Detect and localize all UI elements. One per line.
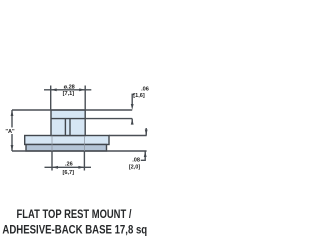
- dia extension line right: [84, 86, 86, 111]
- svg-text:[7,1]: [7,1]: [63, 91, 75, 97]
- cap bottom extension line right: [85, 118, 132, 120]
- svg-text:"A": "A": [5, 129, 15, 135]
- bottom dim extension line right: [83, 152, 85, 171]
- svg-text:.06: .06: [141, 86, 149, 92]
- dia arrow right: [79, 88, 85, 91]
- .26 arrow left: [52, 166, 58, 169]
- svg-text:.26: .26: [65, 161, 73, 167]
- dia dimension line: [44, 89, 91, 91]
- .08 arrow down: [145, 130, 148, 136]
- pedestal inner line right: [69, 119, 71, 136]
- pedestal inner line left: [64, 119, 66, 136]
- svg-text:.08: .08: [132, 158, 140, 164]
- .08 lower leader: [141, 151, 145, 160]
- svg-text:[6,7]: [6,7]: [63, 170, 75, 176]
- svg-text:[2,0]: [2,0]: [129, 164, 141, 170]
- dia value text: [5, 85, 149, 176]
- top reference line: [12, 109, 132, 111]
- A dimension line: [11, 110, 13, 151]
- dia arrow left: [51, 88, 57, 91]
- A arrow bottom: [11, 145, 14, 151]
- svg-text:FLAT TOP REST MOUNT /: FLAT TOP REST MOUNT /: [17, 209, 133, 221]
- .06 leader vertical: [132, 94, 134, 105]
- A label: [5, 128, 16, 135]
- body (cap + pedestal): [51, 110, 85, 136]
- .06 arrow down: [131, 104, 134, 110]
- .08 arrow up: [144, 151, 147, 157]
- adhesive layer: [26, 145, 107, 152]
- cap/pedestal junction line: [51, 118, 85, 120]
- dia extension line left: [50, 86, 52, 111]
- .08 upper arrow tail: [145, 128, 147, 136]
- base plate: [25, 136, 109, 145]
- .06 lower arrow tail: [131, 119, 133, 125]
- A arrow top: [11, 110, 14, 116]
- base top extension line right: [109, 135, 147, 137]
- bottom dimension line: [45, 166, 92, 168]
- bottom dim extension line left: [51, 152, 53, 171]
- svg-text:ADHESIVE-BACK BASE 17,8 sq: ADHESIVE-BACK BASE 17,8 sq: [2, 225, 147, 237]
- .26 arrow right: [78, 166, 84, 169]
- .06 arrow up: [131, 119, 134, 125]
- bottom reference line: [12, 150, 147, 152]
- bottom dim extension line right (through base, faint): [83, 136, 85, 151]
- svg-text:ø.28: ø.28: [64, 85, 75, 91]
- bottom dim extension line left (through base, faint): [51, 136, 53, 152]
- svg-text:[1,6]: [1,6]: [133, 93, 145, 99]
